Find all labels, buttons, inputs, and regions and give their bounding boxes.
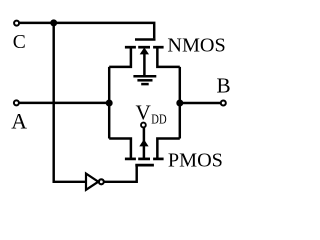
transistor Q1 NMOS bbox=[109, 40, 180, 76]
svg-text:NMOS: NMOS bbox=[167, 34, 225, 56]
PMOS drain lead bbox=[157, 139, 179, 159]
ground bbox=[133, 76, 156, 84]
NMOS channel middle segment bbox=[138, 46, 150, 49]
inverter triangle bbox=[86, 174, 98, 190]
PMOS channel middle segment bbox=[138, 158, 150, 161]
NMOS bulk arrow bbox=[143, 52, 146, 75]
wire: vertical from C junction down to inverter input bbox=[54, 23, 85, 182]
terminal B open circle bbox=[221, 101, 226, 106]
svg-text:PMOS: PMOS bbox=[168, 149, 223, 171]
NMOS channel right segment bbox=[153, 46, 164, 49]
junction dot at C rail bbox=[50, 19, 57, 26]
NMOS gate bar bbox=[135, 38, 156, 41]
svg-text:DD: DD bbox=[151, 113, 166, 128]
terminal A open circle bbox=[14, 100, 19, 105]
VDD terminal open circle bbox=[141, 123, 146, 128]
PMOS channel left segment bbox=[125, 158, 136, 161]
junction dot right node bbox=[176, 100, 183, 107]
wire: right node vertical bbox=[179, 67, 181, 139]
inverter U1 bbox=[86, 174, 104, 190]
svg-text:V: V bbox=[136, 101, 152, 125]
inverter output bubble bbox=[99, 179, 104, 184]
PMOS channel right segment bbox=[153, 158, 164, 161]
junction dot left node bbox=[106, 100, 113, 107]
wire: inverter output to PMOS gate bbox=[104, 165, 137, 182]
wire: left node vertical bbox=[108, 67, 110, 139]
PMOS bulk arrow to VDD bbox=[143, 128, 146, 159]
PMOS source lead bbox=[109, 139, 131, 159]
svg-text:A: A bbox=[11, 110, 27, 134]
wire: A terminal to left node bbox=[19, 102, 109, 104]
NMOS channel left segment bbox=[125, 46, 136, 49]
wire: C terminal to top rail bbox=[20, 23, 154, 39]
transistor Q2 PMOS bbox=[109, 128, 180, 166]
terminal C open circle bbox=[14, 21, 19, 26]
PMOS gate bar bbox=[135, 164, 154, 167]
NMOS source lead bbox=[109, 47, 131, 67]
wire: right node to terminal B bbox=[180, 102, 221, 104]
NMOS drain lead bbox=[157, 47, 179, 67]
svg-text:B: B bbox=[217, 74, 231, 98]
svg-text:C: C bbox=[13, 32, 26, 53]
